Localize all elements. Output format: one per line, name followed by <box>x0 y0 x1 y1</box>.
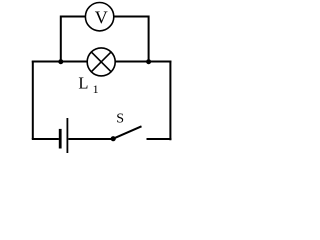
svg-text:V: V <box>95 8 108 28</box>
wire left vertical of voltmeter branch <box>60 16 62 62</box>
wire battery to switch pivot <box>68 138 113 140</box>
wire left outer vertical <box>32 61 34 139</box>
node junction dot left <box>58 59 63 64</box>
svg-text:S: S <box>116 112 124 127</box>
node junction dot right <box>146 59 151 64</box>
wire switch right segment <box>147 138 172 140</box>
wire right outer vertical <box>169 61 171 141</box>
switch S lever <box>113 126 141 138</box>
voltmeter U1 circle <box>85 3 113 31</box>
battery positive plate (long thin) <box>66 118 68 153</box>
wire top horizontal (voltmeter branch) <box>61 16 149 18</box>
wire right vertical of voltmeter branch <box>148 16 150 62</box>
lamp L1 circle with cross <box>87 48 115 76</box>
switch S pivot dot <box>111 136 116 141</box>
svg-text:1: 1 <box>93 82 99 96</box>
battery negative plate (short thick) <box>59 129 62 149</box>
svg-text:L: L <box>78 74 88 93</box>
wire bottom left (to battery) <box>32 138 59 140</box>
wire lamp row horizontal <box>32 61 172 63</box>
